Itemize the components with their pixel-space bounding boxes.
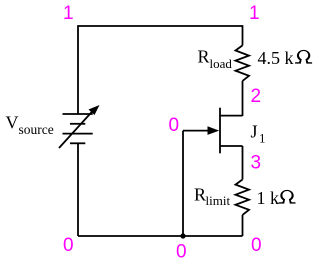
resistor Rload — [236, 45, 250, 81]
svg-text:R: R — [198, 47, 210, 67]
svg-text:V: V — [6, 113, 19, 133]
svg-text:load: load — [210, 56, 233, 71]
resistor Rlimit — [236, 180, 250, 215]
wire left upper — [77, 25, 79, 114]
wire bottom rail — [78, 235, 243, 237]
svg-text:4.5 k: 4.5 k — [258, 48, 294, 68]
svg-text:0: 0 — [176, 242, 187, 263]
wire Rload to drain — [242, 81, 244, 116]
svg-text:0: 0 — [169, 115, 180, 136]
svg-text:1: 1 — [249, 3, 260, 24]
wire right top — [242, 25, 244, 45]
svg-text:limit: limit — [206, 193, 231, 208]
svg-text:1: 1 — [259, 130, 266, 145]
label Vsource — [6, 113, 54, 137]
junction dot node 0 — [180, 233, 185, 238]
label J1 — [251, 122, 266, 146]
svg-text:R: R — [194, 184, 206, 204]
svg-text:J: J — [251, 122, 258, 142]
label Rload — [198, 47, 233, 71]
wire Rlimit to bottom rail — [242, 215, 244, 236]
voltage source Vsource — [59, 105, 100, 148]
wire top rail — [78, 25, 243, 27]
svg-text:0: 0 — [63, 235, 74, 256]
svg-text:0: 0 — [251, 235, 262, 256]
svg-text:3: 3 — [251, 153, 262, 174]
wire gate to node 0 — [182, 131, 184, 236]
svg-text:1: 1 — [63, 3, 74, 24]
wire source to Rlimit — [242, 146, 244, 180]
svg-text:source: source — [19, 122, 54, 137]
label Rlimit — [194, 184, 230, 208]
transistor J1 — [183, 108, 243, 154]
wire left lower — [77, 143, 79, 236]
svg-text:2: 2 — [251, 86, 262, 107]
svg-text:1 k: 1 k — [257, 188, 280, 208]
